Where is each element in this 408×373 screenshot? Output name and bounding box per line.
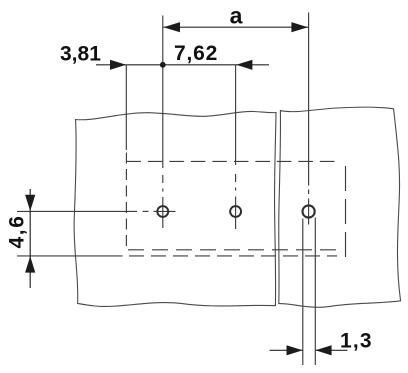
- hole3 tangent extension lines: [303, 218, 316, 366]
- svg-text:a: a: [230, 3, 243, 29]
- origin dot: [160, 62, 166, 68]
- dimension 3,81 / 7,62 line: [96, 64, 269, 66]
- hole 3: [303, 205, 315, 217]
- panel outline left (wavy torn box): [74, 111, 276, 306]
- svg-text:4,6: 4,6: [6, 215, 29, 249]
- arrow 3,81: [110, 60, 126, 70]
- panel outline right (wavy torn box): [279, 107, 401, 307]
- horizontal centerline through hole1: [17, 210, 176, 212]
- arrow 1,3 right: [316, 345, 332, 355]
- dimension a line: [163, 26, 308, 28]
- hole 1: [157, 206, 168, 217]
- extension line hole1 column: [162, 16, 164, 229]
- dimension 1,3: [270, 349, 348, 351]
- extension line 3,81 left: [125, 65, 127, 150]
- extension line hole3 column: [308, 13, 310, 225]
- arrow 4,6 top: [25, 195, 35, 211]
- arrow a right: [291, 22, 308, 32]
- svg-text:7,62: 7,62: [174, 42, 218, 65]
- dashed housing rectangle: [126, 153, 345, 258]
- hole 2: [230, 206, 241, 217]
- arrow a left: [164, 22, 181, 32]
- extension line hole2 column: [235, 65, 237, 229]
- dimension 4,6: [29, 189, 31, 288]
- arrow 4,6 bottom: [25, 256, 35, 272]
- svg-text:1,3: 1,3: [340, 330, 373, 353]
- arrow 7,62: [236, 60, 252, 70]
- arrow 1,3 left: [287, 345, 303, 355]
- solder-side dashed line: [17, 255, 337, 257]
- svg-text:3,81: 3,81: [60, 43, 101, 66]
